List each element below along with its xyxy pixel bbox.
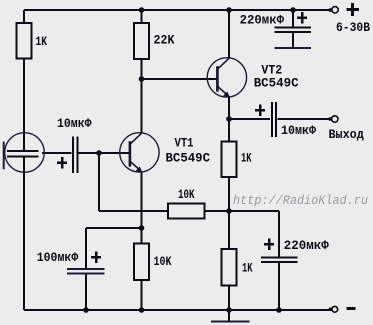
svg-text:1K: 1K [242,262,253,276]
wire microphone bottom lead [23,157,25,310]
wire R2 bottom to VT1 collector [141,59,143,133]
wire C3 bottom lead [85,273,87,310]
node top rail / VT2 collector [226,7,232,13]
svg-text:6-30В: 6-30В [336,21,370,35]
wire base node down [98,153,100,211]
node bottom rail / R5 [139,307,145,313]
wire R1 to microphone [23,58,25,151]
svg-text:10K: 10K [178,188,195,202]
svg-text:10мкФ: 10мкФ [281,124,316,138]
svg-text:Выход: Выход [329,128,365,142]
wire output row left [229,118,270,120]
svg-text:1K: 1K [241,152,252,166]
resistor 10K feedback [168,188,205,219]
node bottom rail / C3 [83,307,89,313]
node top rail / R2 [139,7,145,13]
wire emitter branch to C3 [86,227,142,229]
wire R6 top lead [228,211,230,249]
svg-text:100мкФ: 100мкФ [37,251,79,265]
microphone BM1 electret [4,133,45,173]
resistor 22K VT1 collector load [134,23,175,59]
wire C1 to VT1 base [79,152,131,154]
svg-text:BC549C: BC549C [166,152,211,166]
wire VT2 emitter lead [228,97,230,119]
wire C5 top lead [278,211,280,257]
resistor 1K VT2 emitter [222,142,252,178]
wire R6 bottom lead [228,286,230,311]
terminal minus [329,306,356,312]
chassis bar C4 [275,47,312,49]
svg-text:22K: 22K [154,34,175,48]
resistor 10K VT1 emitter [134,244,172,281]
wire output row right [278,118,332,120]
wire R2 top lead [141,10,143,24]
wire R5 bottom lead [141,280,143,310]
terminal output Vyhod [329,116,365,142]
wire VT2 base row [142,78,218,80]
node bottom rail / C5 [276,307,282,313]
node VT1 base [96,150,102,156]
node feedback / R6 [226,208,232,214]
wire ground lead [228,310,230,321]
wire C5 bottom lead [278,263,280,311]
transistor VT2 BC549C [207,58,299,98]
wire R1 top lead [23,10,25,24]
svg-text:http://RadioKlad.ru: http://RadioKlad.ru [233,194,368,208]
svg-text:VT2: VT2 [261,64,282,78]
capacitor 220uF supply filter [240,12,311,32]
svg-text:1K: 1K [36,35,48,49]
node VT2 base / R2 [139,76,145,82]
capacitor 100uF emitter bypass [37,251,105,273]
resistor 1K output divider [222,249,253,286]
svg-text:220мкФ: 220мкФ [240,14,285,28]
node VT1 emitter / C3 branch [139,225,145,231]
wire R3 bottom lead [228,177,230,211]
capacitor 10uF output coupling [255,102,316,138]
wire C4 top lead [292,10,294,27]
wire R3 top lead [228,119,230,142]
node VT2 emitter [226,116,232,122]
wire feedback right [205,210,230,212]
wire node to C5 [229,210,279,212]
svg-text:VT1: VT1 [175,137,194,151]
svg-text:10мкФ: 10мкФ [57,117,92,131]
svg-text:10K: 10K [154,255,172,269]
terminal +supply 6-30V [329,3,371,35]
wire C3 top lead [85,228,87,269]
wire VT2 collector lead [228,10,230,58]
wire top supply rail [24,9,331,11]
node bottom rail / ground [226,307,232,313]
ground [211,321,250,323]
wire bottom common rail [24,309,331,311]
wire feedback left [99,210,168,212]
wire VT1 emitter lead [141,172,143,244]
node top rail / C4 [290,7,296,13]
svg-text:220мкФ: 220мкФ [284,239,329,253]
capacitor 220uF output divider bypass [261,239,329,263]
capacitor 10uF input coupling [57,117,92,173]
svg-text:BC549C: BC549C [254,77,299,91]
transistor VT1 BC549C [120,133,211,173]
wire C4 bottom lead [292,33,294,48]
wire microphone output [42,152,72,154]
resistor 1K mic bias [17,23,48,59]
